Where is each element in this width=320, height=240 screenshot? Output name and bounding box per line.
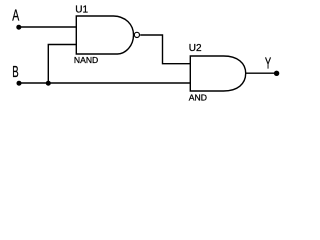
svg-text:Y: Y [265, 56, 271, 73]
inverter bubble of U1 [134, 32, 139, 37]
and gate U2 body [190, 56, 245, 91]
wire B to U2 lower input [19, 82, 190, 84]
wire A to U1 input 1 [19, 26, 77, 28]
svg-text:NAND: NAND [74, 55, 98, 65]
terminal dot B [17, 81, 22, 86]
nand gate U1 body [76, 16, 133, 54]
terminal dot Y [274, 71, 279, 76]
wire U1 output to U2 upper input [140, 35, 190, 64]
svg-text:U1: U1 [75, 4, 88, 15]
wire U2 output to Y [246, 72, 277, 74]
terminal dot A [16, 25, 21, 30]
svg-text:AND: AND [189, 93, 207, 103]
svg-text:A: A [12, 8, 19, 25]
junction dot on wire B [46, 81, 51, 86]
svg-text:B: B [12, 64, 18, 81]
wire branch from B junction to U1 input 2 [48, 45, 76, 84]
svg-text:U2: U2 [189, 43, 202, 54]
